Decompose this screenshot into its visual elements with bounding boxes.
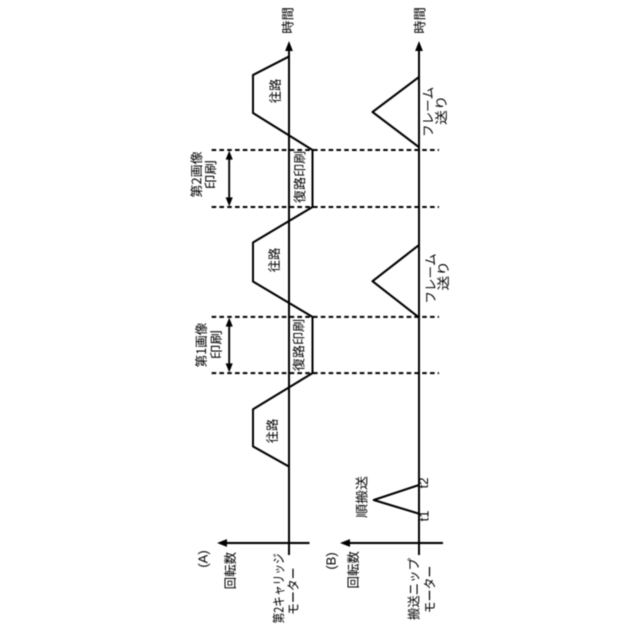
svg-text:t1: t1 xyxy=(417,511,432,522)
label 第2キャリッジ xyxy=(272,554,284,623)
label 第2画像 xyxy=(190,152,202,197)
time axis A (横軸) xyxy=(288,50,290,555)
label 往路 (2nd) xyxy=(268,248,280,272)
axis label 回転数 (A) xyxy=(224,552,236,588)
double arrow 第1画像印刷 xyxy=(228,322,230,368)
speed axis B (縦軸) xyxy=(348,542,443,544)
label 搬送ニップ xyxy=(408,558,420,620)
speed axis A (縦軸) xyxy=(225,542,310,544)
label フレーム (1st) xyxy=(425,254,435,302)
speed axis A arrowhead xyxy=(217,539,227,547)
waveform B (搬送ニップモーター回転数) xyxy=(373,56,420,555)
double arrow 第2画像印刷 xyxy=(228,155,230,202)
label 往路 (3rd) xyxy=(269,79,281,103)
axis label 時間 (A) xyxy=(282,8,294,33)
svg-text:(B): (B) xyxy=(324,552,339,569)
speed axis B arrowhead xyxy=(340,539,350,547)
svg-text:t2: t2 xyxy=(416,478,431,489)
label フレーム (2nd) xyxy=(423,88,433,136)
axis label 時間 (B) xyxy=(414,8,426,33)
label 送り (2nd) xyxy=(435,98,447,124)
dashed guide line 4 xyxy=(212,149,439,151)
time axis A arrowhead xyxy=(285,41,293,51)
svg-text:(A): (A) xyxy=(196,550,211,567)
label 印刷 (第2) xyxy=(204,161,216,188)
dashed guide line 2 xyxy=(212,316,439,318)
label モーター (A) xyxy=(287,569,298,614)
label 印刷 (第1) xyxy=(210,331,222,358)
label 第1画像 xyxy=(195,323,207,367)
label 送り (1st) xyxy=(437,264,449,290)
dashed guide line 3 xyxy=(212,206,439,208)
label モーター (B) xyxy=(424,567,435,612)
axis label 回転数 (B) xyxy=(347,552,359,588)
waveform A (第2キャリッジモーター回転数) xyxy=(253,57,313,556)
label 復路印刷 (1st) xyxy=(293,320,305,371)
dashed guide line 1 xyxy=(212,372,439,374)
label 往路 (1st) xyxy=(266,419,278,443)
time axis B (横軸) xyxy=(418,50,420,555)
time axis B arrowhead xyxy=(415,41,423,51)
label 順搬送 xyxy=(356,477,368,518)
label 復路印刷 (2nd) xyxy=(294,152,306,203)
